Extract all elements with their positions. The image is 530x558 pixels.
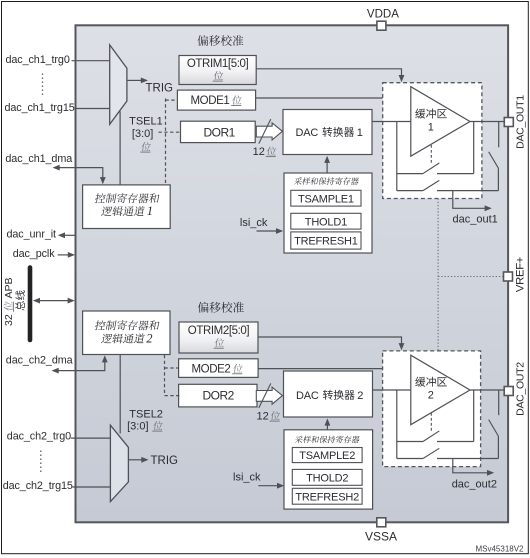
wire MODE2 to buffer (258, 368, 383, 370)
svg-text:dac_unr_it: dac_unr_it (7, 228, 57, 240)
svg-text:1: 1 (428, 122, 434, 134)
register MODE1 box (177, 90, 255, 110)
svg-text:MODE2: MODE2 (192, 363, 231, 375)
APB bus bar (28, 268, 33, 341)
svg-text:dac_pclk: dac_pclk (13, 248, 56, 260)
wire dac_ch1_dma (59, 168, 103, 179)
wire lsi_ck 1 (257, 230, 277, 232)
wire dac_ch2_trg0 to mux (71, 437, 111, 439)
buffer1 bypass switch (498, 122, 500, 148)
svg-text:TRIG: TRIG (146, 83, 174, 95)
12-bit bus arrow 1 (256, 123, 282, 140)
svg-text:MODE1: MODE1 (191, 95, 230, 107)
wire dac_ch2_trg15 to mux (73, 486, 111, 488)
pin VREF+ (504, 272, 513, 281)
VREF+ dotted net (437, 199, 439, 351)
wire mux1 select to control logic 1 (119, 111, 121, 185)
svg-text:THOLD1: THOLD1 (305, 216, 347, 228)
wire OTRIM2 to buffer (258, 337, 402, 345)
label offset calibration 2 (198, 302, 244, 313)
svg-text:2: 2 (428, 390, 434, 402)
register DOR1 box (181, 121, 256, 142)
svg-text:TSAMPLE1: TSAMPLE1 (298, 193, 354, 205)
svg-text:DAC_OUT2: DAC_OUT2 (514, 362, 526, 416)
ellipsis trigger inputs ch1 (42, 74, 44, 98)
svg-text:VSSA: VSSA (365, 530, 397, 544)
svg-text:dac_out1: dac_out1 (453, 213, 498, 225)
svg-text:lsi_ck: lsi_ck (233, 472, 261, 484)
register OTRIM2 box (179, 322, 258, 353)
op-amp buffer 2 (411, 355, 470, 425)
wire dac_pclk (58, 254, 68, 256)
wire MODE1 to buffer (256, 97, 383, 99)
buffer2 mode dashed control (430, 413, 432, 433)
buffer2 feedback network (396, 390, 398, 459)
svg-text:dac_ch2_trg15: dac_ch2_trg15 (3, 480, 73, 492)
label offset calibration 1 (197, 35, 243, 46)
svg-text:DAC: DAC (296, 390, 319, 402)
svg-text:TRIG: TRIG (151, 455, 179, 467)
wire OTRIM1 to buffer (256, 69, 401, 77)
register THOLD1 box (291, 213, 361, 229)
register DOR2 box (179, 384, 257, 407)
wire buffer1 output to pin (470, 121, 504, 123)
pin DAC_OUT2 (504, 387, 513, 396)
svg-text:MSv45318V2: MSv45318V2 (475, 545, 524, 554)
register TREFRESH2 box (292, 488, 362, 504)
svg-text:DOR2: DOR2 (203, 389, 235, 403)
svg-text:1: 1 (357, 127, 363, 139)
register TSAMPLE2 box (292, 448, 362, 463)
svg-text:[3:0]: [3:0] (132, 128, 153, 140)
label 32-bit APB bus (3, 277, 15, 326)
svg-text:dac_ch2_dma: dac_ch2_dma (6, 355, 73, 367)
svg-text:2: 2 (146, 332, 152, 346)
buffer2 bypass switch (498, 390, 500, 415)
wire sample-hold to DAC1 (326, 161, 328, 174)
svg-text:APB: APB (3, 277, 15, 298)
buffer1 switch row 2 (397, 190, 423, 192)
svg-text:DOR1: DOR1 (204, 125, 236, 139)
buffer1 mode dashed control (430, 145, 432, 165)
svg-text:dac_out2: dac_out2 (452, 478, 497, 490)
wire dac_out1 (453, 191, 485, 209)
wire buffer2 output to pin (470, 389, 504, 391)
12-bit bus arrow 2 (256, 387, 282, 404)
svg-text:dac_ch2_trg0: dac_ch2_trg0 (7, 430, 71, 442)
sample and hold registers box 2 (284, 430, 373, 509)
control dashed lines ch2 (164, 355, 166, 396)
svg-text:32: 32 (3, 314, 15, 326)
wire dac_ch2_dma (58, 361, 105, 371)
wire DAC1 to buffer input (372, 121, 411, 123)
wire DAC2 to buffer input (373, 389, 411, 391)
control logic box 2 (83, 311, 170, 355)
pin VDDA (377, 21, 386, 30)
DAC peripheral block (76, 25, 509, 522)
svg-text:TSAMPLE2: TSAMPLE2 (299, 450, 355, 462)
wire TRIG 2 arrow (128, 459, 142, 461)
svg-text:dac_ch1_trg0: dac_ch1_trg0 (6, 54, 70, 66)
buffer2 switch row 2 (397, 458, 423, 460)
register TSAMPLE1 box (291, 190, 361, 206)
wire dac_ch1_trg15 to mux (76, 108, 110, 110)
svg-text:12: 12 (253, 146, 265, 158)
buffer1 feedback network (396, 122, 398, 191)
wire APB bus to block (37, 300, 69, 302)
svg-text:OTRIM1[5:0]: OTRIM1[5:0] (187, 58, 249, 70)
wire control logic 2 to mux2 select (119, 355, 121, 434)
svg-text:12: 12 (257, 411, 269, 423)
svg-text:dac_ch1_dma: dac_ch1_dma (5, 153, 72, 165)
control logic box 1 (83, 185, 171, 229)
svg-text:TREFRESH1: TREFRESH1 (294, 236, 358, 248)
ellipsis trigger inputs ch2 (40, 451, 42, 474)
wire lsi_ck 2 (258, 485, 277, 487)
register MODE2 box (179, 359, 259, 378)
svg-text:OTRIM2[5:0]: OTRIM2[5:0] (188, 325, 250, 337)
DAC converter 2 box (284, 371, 373, 417)
register THOLD2 box (292, 469, 362, 485)
trigger mux 1 (110, 45, 127, 124)
output buffer 1 dashed box (383, 83, 482, 199)
control dashed lines ch1 (165, 99, 167, 185)
wire dac_out2 (453, 459, 488, 473)
svg-text:[3:0]: [3:0] (127, 421, 148, 433)
register TREFRESH1 box (291, 232, 361, 249)
svg-text:VDDA: VDDA (367, 9, 399, 21)
DAC converter 1 box (283, 110, 372, 155)
svg-text:DAC_OUT1: DAC_OUT1 (514, 95, 526, 149)
svg-text:1: 1 (147, 204, 153, 218)
wire dac_ch1_trg0 to mux (72, 60, 111, 62)
svg-text:2: 2 (357, 390, 363, 402)
register OTRIM1 box (179, 56, 256, 85)
op-amp buffer 1 (411, 87, 470, 157)
output buffer 2 dashed box (383, 351, 481, 467)
svg-text:VREF+: VREF+ (514, 256, 526, 292)
wire sample-hold to DAC2 (326, 423, 328, 430)
pin VSSA (377, 518, 386, 527)
svg-text:DAC: DAC (296, 127, 319, 139)
pin DAC_OUT1 (504, 118, 513, 127)
sample and hold registers box 1 (284, 173, 372, 253)
wire dac_unr_it (64, 234, 76, 236)
svg-text:TSEL1: TSEL1 (129, 116, 163, 128)
svg-text:lsi_ck: lsi_ck (240, 217, 268, 229)
svg-text:TSEL2: TSEL2 (129, 409, 163, 421)
wire TRIG 1 arrow (127, 79, 142, 81)
svg-text:THOLD2: THOLD2 (306, 472, 348, 484)
trigger mux 2 (110, 425, 128, 501)
svg-text:dac_ch1_trg15: dac_ch1_trg15 (5, 102, 75, 114)
svg-text:TREFRESH2: TREFRESH2 (295, 491, 359, 503)
